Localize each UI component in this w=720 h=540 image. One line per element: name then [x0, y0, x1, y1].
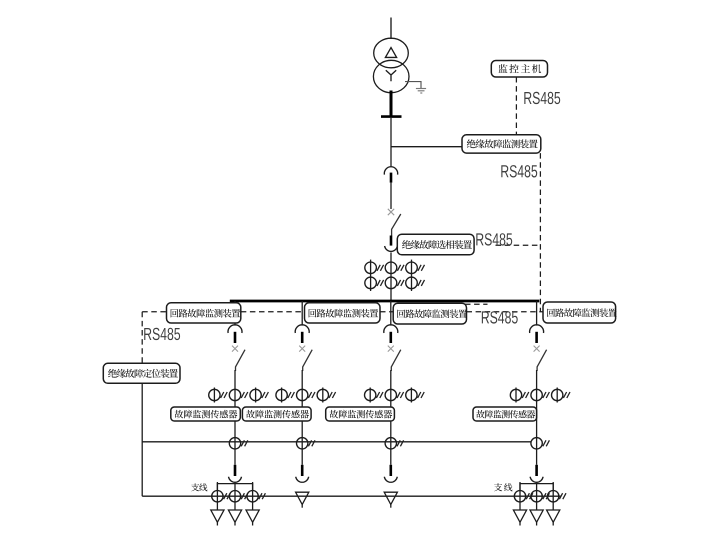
wire: locator measuring bus (lower horizontal) [142, 495, 560, 497]
wire + circuit breaker QF4 (feeder 4) [530, 301, 547, 465]
branch circuit (zhixian) of feeder 4 with CTs and load arrows [513, 482, 566, 526]
sensor group: feeder 4 fault-monitoring CTs [510, 388, 570, 403]
branch circuit (zhixian) of feeder 1 with CTs and load arrows [211, 482, 266, 526]
monitor CT on feeder 3 [385, 438, 404, 449]
label box: 回路故障监测装置 #1 [167, 303, 241, 323]
label box: 绝缘故障定位装置 (insulation fault locating device) [103, 363, 180, 383]
label box: 故障监测传感器 #3 [326, 407, 395, 421]
wire: incoming supply line [390, 18, 392, 40]
text: RS485 (busbar level) [482, 311, 518, 323]
wire: main feed vertical [390, 117, 392, 167]
wire: transformer neutral to ground [405, 82, 421, 89]
sensor group: feeder 1 fault-monitoring CTs [209, 388, 269, 403]
monitor CT on feeder 2 [297, 438, 316, 449]
text: RS485 (locator drop) [144, 328, 180, 340]
wire + circuit breaker QF1 (feeder 1) [228, 301, 245, 465]
drawout contact at bottom of feeder 1 [229, 465, 242, 482]
label box: 故障监测传感器 #1 [171, 407, 241, 421]
label box: 绝缘故障监测装置 (insulation fault monitoring device) [462, 135, 541, 153]
RS485 dashed trunk: monitor down to busbar level [539, 153, 541, 312]
sensor group: feeder 2 fault-monitoring CTs [276, 388, 336, 403]
RS485 dashed branch: to phase-selection device [496, 244, 541, 246]
transformer T1 delta-wye [373, 38, 409, 92]
drawout contact at bottom of feeder 3 [384, 465, 397, 482]
circuit breaker QF0 (main, withdrawable) [384, 167, 401, 300]
label box: 绝缘故障选相装置 (insulation fault phase-selection device) [397, 234, 474, 255]
monitor CT on feeder 1 [229, 438, 248, 449]
label box: 监控主机 (monitoring host) [491, 61, 547, 78]
label box: 回路故障监测装置 #2 [305, 303, 381, 323]
wire: locator measuring bus (upper horizontal) [142, 441, 531, 443]
busbar (thick horizontal) [230, 300, 540, 303]
label box: 故障监测传感器 #4 [473, 407, 537, 421]
busbar riser (thick vertical bar) [390, 91, 393, 118]
wire + circuit breaker QF3 (feeder 3) [384, 301, 401, 465]
RS485 dashed horizontal: loop-monitor chain [142, 311, 543, 313]
text: 支线 (branch) feeder 4 [494, 483, 512, 491]
text: 支线 (branch) feeder 1 [191, 483, 207, 491]
wire: tap to insulation monitor [391, 146, 462, 148]
load arrow: feeder 2 [296, 492, 309, 508]
wire + circuit breaker QF2 (feeder 2) [295, 301, 312, 465]
short dashed stub near busbar end [465, 303, 488, 305]
isolator crossbar [381, 115, 402, 118]
monitor CT on feeder 4 [531, 438, 550, 449]
label box: 故障监测传感器 #2 [242, 407, 311, 421]
RS485 dashed link: host to insulation monitor [515, 77, 517, 135]
RS485 dashed drop to locator device [141, 312, 143, 364]
label box: 回路故障监测装置 #4 [543, 302, 617, 323]
ground symbol [416, 89, 426, 94]
text: RS485 (host link) [524, 92, 560, 104]
text: RS485 (below monitor) [501, 165, 537, 177]
sensor group: feeder 3 fault-monitoring CTs [365, 388, 425, 403]
wire: locator vertical drop on left [141, 383, 143, 496]
label box: 回路故障监测装置 #3 [393, 303, 467, 324]
sensor group: main feed CTs (2 rows x 3) [365, 260, 425, 291]
drawout contact at bottom of feeder 4 [530, 465, 543, 482]
load arrow: feeder 3 [384, 492, 397, 508]
drawout contact at bottom of feeder 2 [296, 465, 309, 482]
text: RS485 (phase-selection link) [476, 233, 512, 245]
